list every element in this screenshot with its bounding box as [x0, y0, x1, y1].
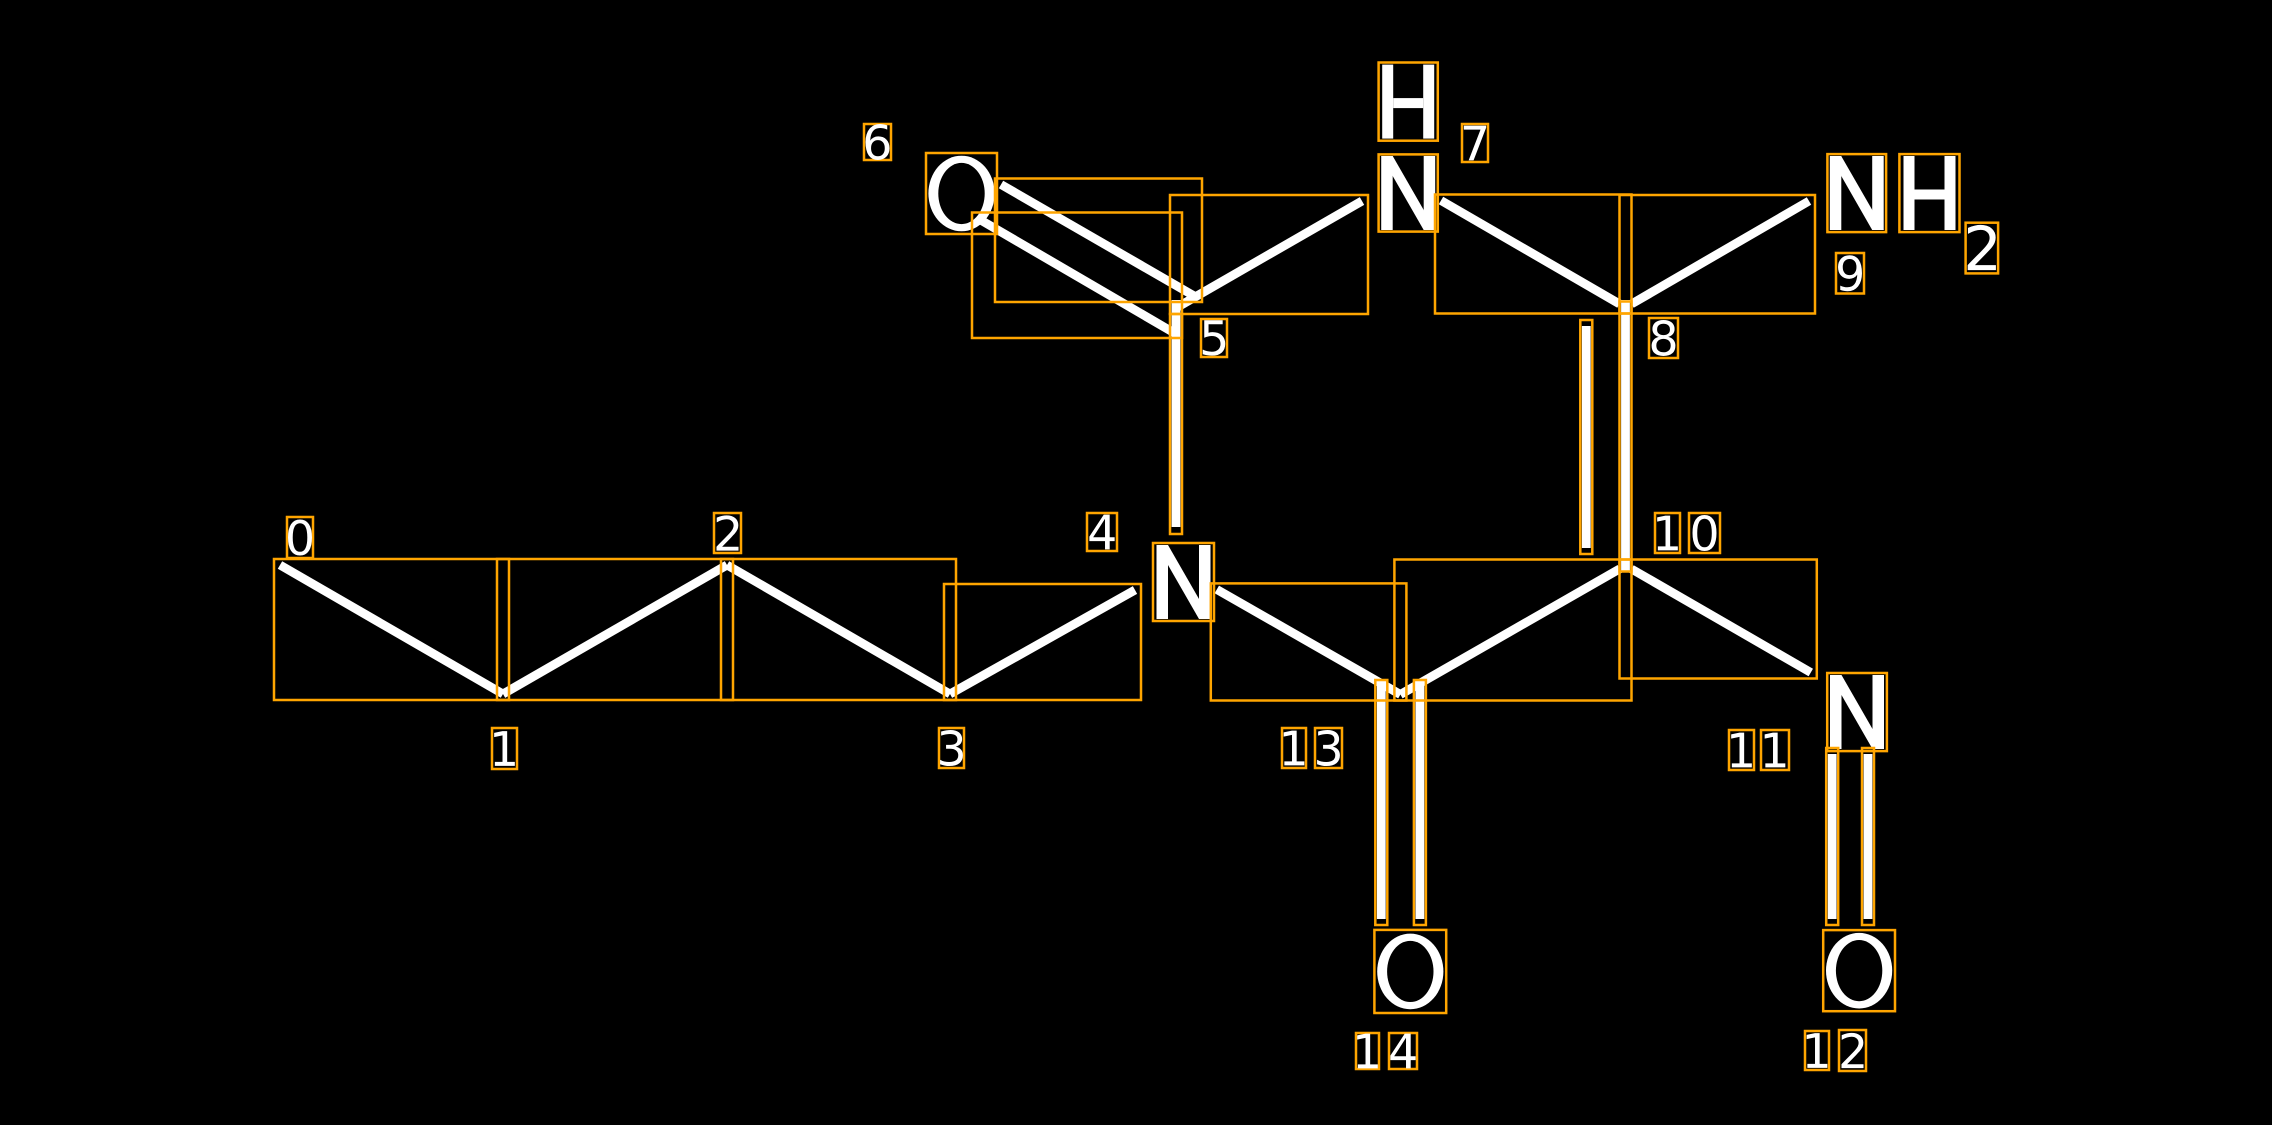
box atom O14 [1374, 930, 1446, 1013]
bond 5-7 [1176, 201, 1362, 308]
box bond 5=6 line a [995, 179, 1202, 303]
label 8 [1649, 318, 1678, 358]
box atom N7 H [1379, 63, 1438, 141]
box bond 10-13 [1394, 560, 1631, 701]
bond 4-5 [1172, 300, 1181, 527]
box bond 7-8 [1435, 195, 1632, 314]
box bond 11=12 right [1862, 748, 1874, 925]
label 5 [1201, 319, 1227, 357]
atom O12 glyph [1826, 933, 1892, 1009]
label 14 digit 1 [1356, 1033, 1379, 1069]
box bond 5-7 [1170, 195, 1368, 314]
atom N4 glyph [1157, 545, 1169, 619]
label 0 [287, 517, 313, 558]
box bond 0-1 [274, 559, 509, 700]
box bond 8-9 [1620, 195, 1816, 314]
label 3 [939, 728, 964, 768]
bond 13-4 [1217, 589, 1401, 694]
bond 11=12 left [1828, 754, 1837, 919]
bond 3-4 [950, 590, 1135, 694]
bond 13=14 left [1377, 686, 1386, 919]
bond 7-8 [1441, 201, 1620, 304]
bond 8=10 inner [1582, 326, 1591, 548]
atom O6 glyph [928, 156, 994, 232]
box atom N4 [1153, 543, 1214, 621]
label 10 digit 1 [1655, 513, 1680, 553]
box atom N9 subscript 2 [1966, 223, 1999, 274]
box bond 4-5 [1170, 314, 1182, 534]
box atom N11 [1827, 673, 1887, 751]
atom N9 subscript 2 glyph [1968, 225, 1996, 270]
atom N7 glyph [1381, 156, 1393, 230]
atom N7 H glyph [1382, 65, 1393, 139]
bond 2-3 [727, 565, 950, 694]
label 11 first digit 1 [1729, 730, 1754, 770]
label 12 digit 2 [1839, 1030, 1866, 1071]
label 13 digit 3 [1315, 728, 1342, 768]
box bond 5=6 line b [972, 213, 1182, 339]
label 4 [1087, 513, 1117, 551]
box bond 10-11 [1620, 560, 1817, 679]
box atom O6 [926, 153, 997, 234]
label 2 [714, 513, 741, 553]
label 7 [1462, 124, 1488, 162]
label 11 second digit 1 [1761, 730, 1789, 770]
label 6 [864, 124, 891, 160]
bond 5=6 line a [1001, 185, 1196, 298]
label 14 digit 4 [1389, 1033, 1417, 1069]
box bond 3-4 [944, 584, 1141, 700]
label 9 [1836, 253, 1864, 294]
bond 10-13 [1400, 569, 1619, 695]
box bond 13=14 left [1375, 680, 1387, 925]
bond 0-1 [280, 565, 503, 694]
box bond 13=14 right [1414, 680, 1426, 925]
box bond 13-4 [1211, 583, 1407, 700]
box bond 8=10 main [1620, 302, 1632, 572]
box atom N9 H [1899, 154, 1959, 232]
bond 10-11 [1632, 569, 1811, 673]
atom N9 H glyph [1904, 156, 1915, 230]
label 1 [492, 728, 517, 769]
atom N9 glyph [1830, 156, 1842, 230]
label 10 digit 0 [1689, 513, 1720, 553]
bond 8=10 main [1621, 300, 1630, 572]
box bond 1-2 [497, 559, 733, 700]
box atom N9 [1827, 154, 1886, 232]
atom O14 glyph [1377, 934, 1443, 1010]
box atom N7 [1379, 154, 1438, 231]
label 13 digit 1 [1282, 728, 1306, 768]
box atom O12 [1823, 930, 1895, 1011]
bond 13=14 right [1416, 686, 1425, 919]
box bond 2-3 [721, 559, 956, 700]
bond 8-9 [1632, 201, 1810, 304]
label 12 digit 1 [1805, 1031, 1829, 1070]
atom N11 glyph [1830, 675, 1842, 749]
bond 11=12 right [1864, 754, 1873, 919]
box bond 8=10 inner [1580, 320, 1592, 554]
bond 5=6 line b [978, 219, 1176, 335]
bond 1-2 [503, 565, 727, 694]
box bond 11=12 left [1826, 748, 1838, 925]
